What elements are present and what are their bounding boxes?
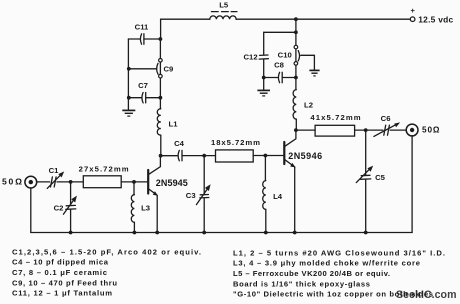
svg-text:+: + [411, 6, 416, 15]
svg-text:41x5.72mm: 41x5.72mm [310, 113, 360, 122]
svg-text:L2: L2 [304, 101, 313, 110]
svg-text:Board is 1/16" thick epoxy-gla: Board is 1/16" thick epoxy-glass [233, 279, 370, 288]
svg-text:L5: L5 [219, 1, 229, 10]
svg-text:L3, 4 – 3.9 μhy molded choke w: L3, 4 – 3.9 μhy molded choke w/ferrite c… [233, 259, 420, 268]
svg-text:C2: C2 [54, 204, 64, 213]
svg-text:2N5946: 2N5946 [288, 151, 322, 161]
svg-text:C4 – 10 pf dipped mica: C4 – 10 pf dipped mica [12, 258, 109, 267]
svg-text:C9: C9 [164, 64, 174, 73]
svg-text:C12: C12 [244, 53, 258, 62]
svg-text:C6: C6 [381, 114, 391, 123]
svg-text:C8: C8 [274, 61, 285, 70]
svg-text:C5: C5 [375, 173, 386, 182]
svg-text:L1, 2 – 5 turns #20 AWG Closew: L1, 2 – 5 turns #20 AWG Closewound 3/16"… [233, 248, 445, 257]
svg-text:SeekIC.com: SeekIC.com [396, 289, 457, 301]
svg-text:C11: C11 [135, 22, 149, 31]
svg-text:C7: C7 [138, 81, 148, 90]
svg-text:C3: C3 [186, 191, 196, 200]
svg-text:12.5 vdc: 12.5 vdc [418, 14, 453, 24]
svg-text:18x5.72mm: 18x5.72mm [211, 138, 260, 147]
svg-text:C7, 8 – 0.1 μF ceramic: C7, 8 – 0.1 μF ceramic [12, 268, 107, 277]
svg-text:C9, 10 – 470 pf Feed thru: C9, 10 – 470 pf Feed thru [12, 278, 117, 287]
svg-text:50Ω: 50Ω [422, 126, 440, 135]
svg-text:C10: C10 [278, 50, 292, 59]
svg-text:27x5.72mm: 27x5.72mm [79, 164, 129, 173]
svg-text:C1: C1 [49, 166, 60, 175]
svg-text:L5 – Ferroxcube VK200 20/4B or: L5 – Ferroxcube VK200 20/4B or equiv. [233, 269, 390, 278]
svg-text:L4: L4 [273, 192, 283, 201]
svg-text:2N5945: 2N5945 [156, 178, 188, 188]
svg-text:L3: L3 [141, 203, 150, 212]
svg-text:L1: L1 [169, 120, 179, 129]
svg-text:50Ω: 50Ω [2, 177, 22, 187]
svg-text:C4: C4 [174, 139, 185, 148]
svg-text:C11, 12 – 1 μf Tantalum: C11, 12 – 1 μf Tantalum [12, 289, 112, 298]
svg-text:C1,2,3,5,6 – 1.5-20 pF, Arco 4: C1,2,3,5,6 – 1.5-20 pF, Arco 402 or equi… [12, 247, 201, 256]
